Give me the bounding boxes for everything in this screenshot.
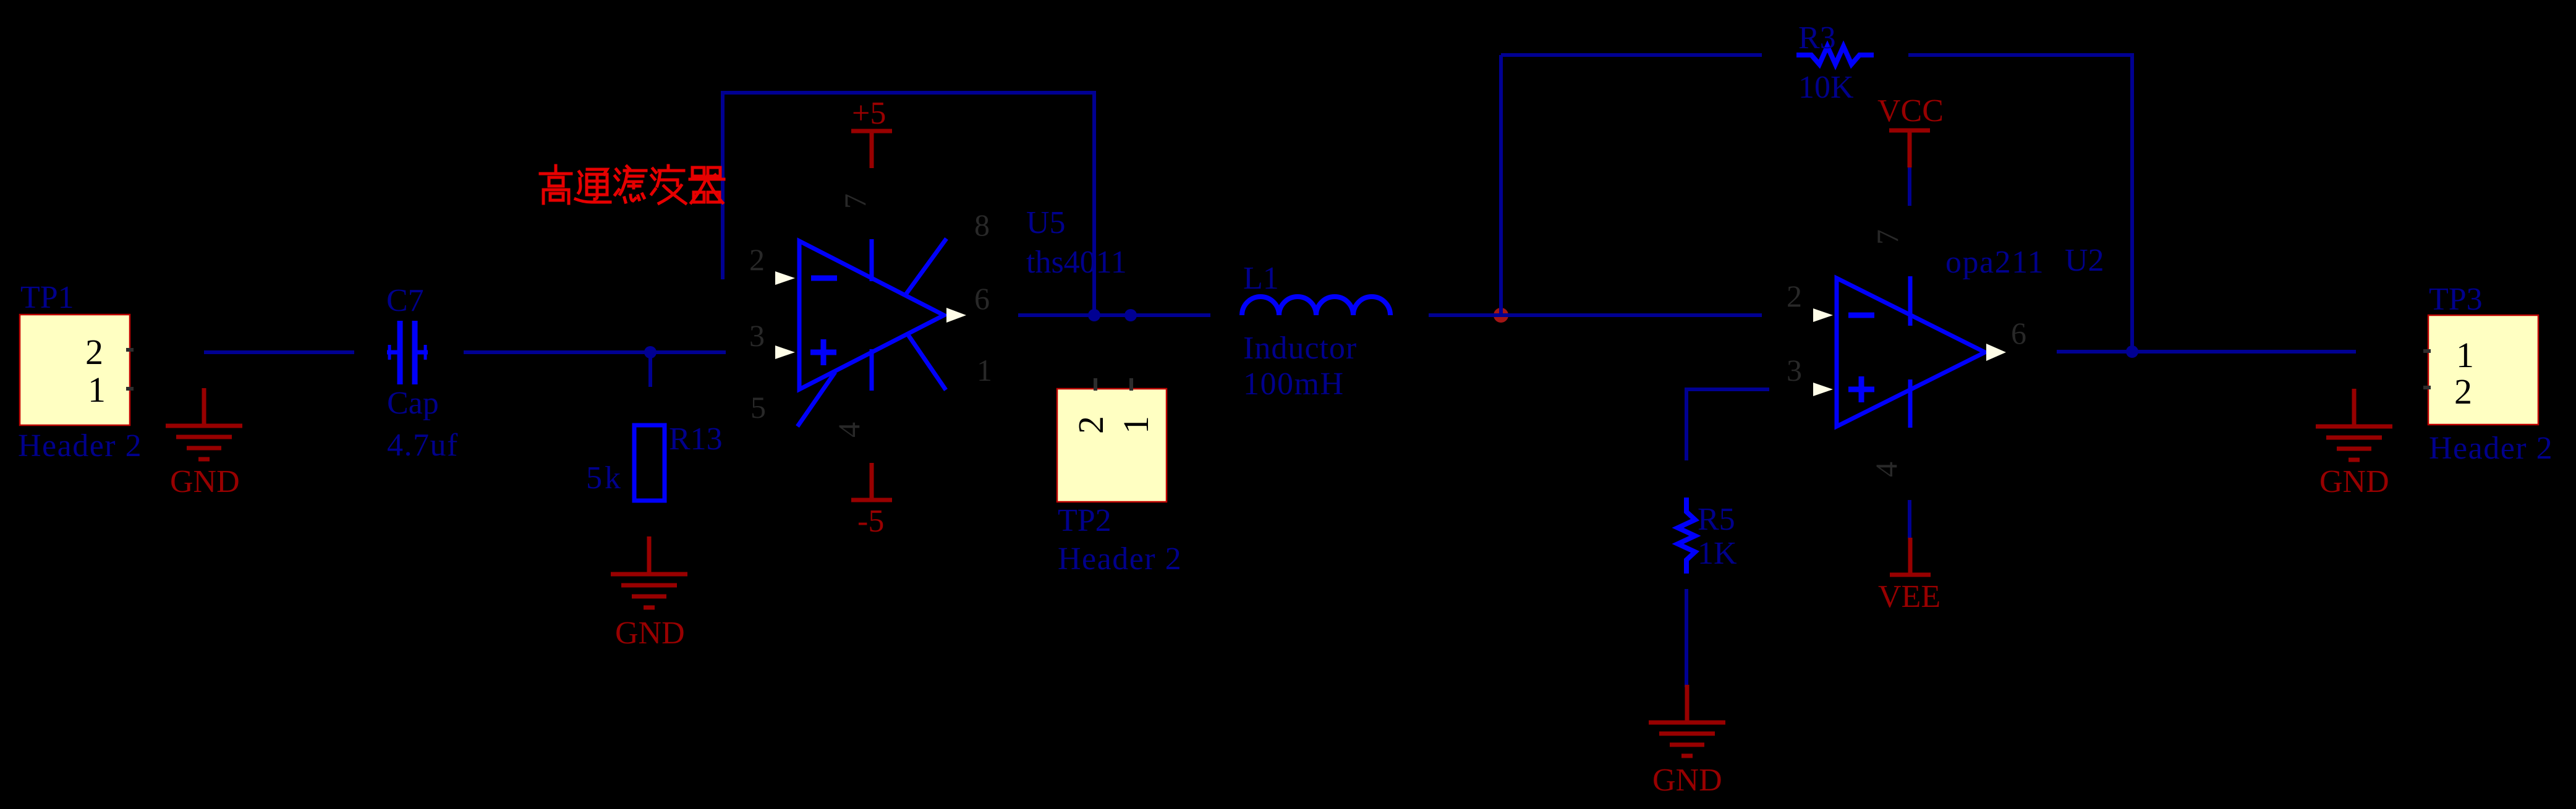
- svg-text:U2: U2: [2065, 243, 2104, 278]
- svg-text:2: 2: [1787, 279, 1802, 313]
- svg-text:Inductor: Inductor: [1243, 331, 1357, 366]
- svg-text:+5: +5: [852, 96, 886, 131]
- svg-text:1K: 1K: [1698, 536, 1737, 571]
- svg-text:C7: C7: [386, 283, 424, 318]
- svg-text:3: 3: [749, 318, 765, 353]
- svg-text:1: 1: [977, 353, 992, 388]
- svg-text:2: 2: [85, 332, 103, 372]
- svg-text:-5: -5: [857, 504, 884, 539]
- svg-text:GND: GND: [170, 464, 240, 499]
- svg-text:TP2: TP2: [1058, 503, 1112, 538]
- svg-text:GND: GND: [1652, 763, 1722, 798]
- svg-text:10K: 10K: [1798, 70, 1854, 105]
- svg-text:100mH: 100mH: [1243, 366, 1345, 402]
- svg-text:6: 6: [974, 281, 990, 316]
- svg-text:U5: U5: [1026, 205, 1066, 240]
- svg-text:4: 4: [1869, 462, 1903, 477]
- svg-text:opa211: opa211: [1945, 245, 2044, 280]
- svg-text:7: 7: [838, 193, 872, 209]
- svg-text:4: 4: [831, 422, 866, 438]
- svg-text:L1: L1: [1243, 261, 1279, 296]
- svg-text:1: 1: [88, 370, 106, 410]
- svg-text:1: 1: [2456, 335, 2474, 375]
- svg-text:VCC: VCC: [1877, 93, 1944, 129]
- svg-text:TP3: TP3: [2429, 282, 2483, 317]
- svg-text:Header 2: Header 2: [2429, 431, 2553, 466]
- svg-text:ths4011: ths4011: [1026, 245, 1127, 280]
- svg-text:3: 3: [1787, 353, 1802, 388]
- svg-text:GND: GND: [2319, 464, 2389, 499]
- svg-text:R3: R3: [1798, 20, 1836, 56]
- svg-text:2: 2: [1071, 416, 1111, 434]
- svg-text:7: 7: [1870, 229, 1905, 245]
- svg-text:5k: 5k: [586, 460, 623, 496]
- svg-text:Header 2: Header 2: [18, 428, 142, 464]
- svg-text:2: 2: [749, 242, 765, 277]
- svg-text:R5: R5: [1698, 502, 1735, 537]
- svg-text:1: 1: [1116, 416, 1156, 434]
- svg-text:8: 8: [974, 208, 990, 242]
- svg-text:2: 2: [2454, 371, 2472, 412]
- svg-text:5: 5: [750, 390, 766, 425]
- svg-text:Header 2: Header 2: [1058, 541, 1182, 577]
- svg-text:TP1: TP1: [20, 280, 74, 315]
- svg-text:VEE: VEE: [1878, 579, 1941, 614]
- svg-text:GND: GND: [615, 616, 685, 651]
- svg-text:4.7uf: 4.7uf: [387, 428, 459, 463]
- svg-text:R13: R13: [669, 421, 723, 457]
- svg-text:6: 6: [2011, 316, 2026, 350]
- svg-text:Cap: Cap: [387, 386, 439, 421]
